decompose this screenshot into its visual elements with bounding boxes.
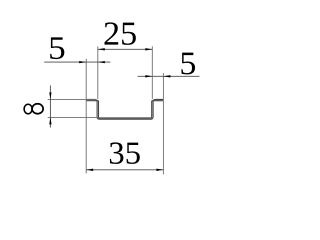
arrow 8 bottom (pointing up) (49, 117, 51, 124)
extension line y=117.4 (bottom of profile, for 8 dim) (48, 116, 99, 118)
channel profile inner surface (86, 101, 163, 118)
arrow 8 top (pointing down) (49, 92, 51, 99)
left flange tip edge (85, 99, 87, 100)
dimension line 35 (86, 169, 163, 171)
arrow 35 left (86, 169, 93, 171)
dim text 8 (rotated 90) (24, 104, 43, 114)
extension line x=97.8 (left web, for 25 and left 5 dims) (97, 46, 99, 99)
arrow left-5 outside-left (79, 61, 86, 63)
right flange tip edge (162, 99, 164, 100)
arrow 25 right (145, 48, 152, 50)
dim text 25 (105, 22, 136, 45)
dimension line left 5 (44, 61, 110, 63)
dim text 35 (110, 142, 140, 164)
arrow 35 right (156, 169, 163, 171)
arrow right-5 outside-left (145, 75, 152, 77)
arrow right-5 outside-right (163, 75, 170, 77)
dimension line 8 (vertical) (49, 86, 51, 128)
extension line x=86.2 (left flange tip, for 5 and 35 dims) (85, 59, 87, 174)
dimension line 25 (98, 48, 153, 50)
extension line x=152.3 (right web, for 25 and right 5 dims) (151, 46, 153, 99)
channel profile outer surface (86, 99, 163, 119)
extension line y=99.4 (top of profile, for 8 dim) (48, 98, 96, 100)
arrow left-5 outside-right (98, 61, 105, 63)
dim text 5 (right) (181, 53, 195, 75)
extension line x=163.4 (right flange tip, for right 5 and 35 dims) (162, 73, 164, 174)
dimension line right 5 (138, 75, 200, 77)
dim text 5 (left) (50, 37, 64, 59)
arrow 25 left (98, 48, 105, 50)
